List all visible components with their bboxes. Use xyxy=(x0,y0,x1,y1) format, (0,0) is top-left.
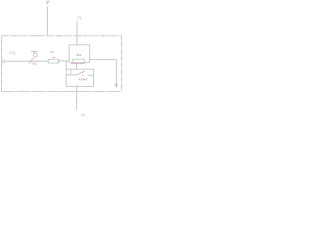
svg-text:R1: R1 xyxy=(51,50,55,54)
svg-text:T2: T2 xyxy=(81,113,86,118)
svg-text:YB0: YB0 xyxy=(31,62,37,66)
svg-text:TCQ: TCQ xyxy=(9,51,16,55)
svg-text:T1: T1 xyxy=(77,15,82,20)
svg-text:KA0: KA0 xyxy=(79,78,84,82)
